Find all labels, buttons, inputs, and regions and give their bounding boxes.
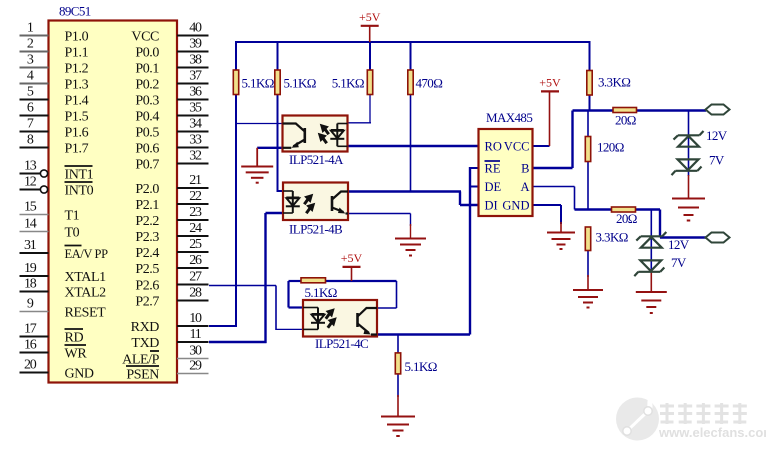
light arrows U3 [319,125,329,144]
svg-text:40: 40 [189,21,202,36]
svg-text:35: 35 [189,101,202,116]
svg-text:WR: WR [65,347,88,362]
svg-text:RXD: RXD [131,320,160,335]
wire opto B BR down [410,214,412,227]
pin 20 (GND) [20,358,94,382]
svg-text:P2.5: P2.5 [135,262,159,277]
pin 5 (P1.4) [20,85,89,109]
+5V supply top [359,10,381,26]
pin 34 (P0.5) [135,117,208,141]
svg-text:P2.0: P2.0 [135,182,159,197]
IC U2 MAX485 body [479,129,533,216]
svg-text:12V: 12V [706,128,728,143]
pin row RO/VCC [485,140,530,154]
wire down to TXD [264,213,266,343]
wire RXD pin10 [209,325,237,327]
svg-text:P2.1: P2.1 [135,198,159,213]
pin 28 (P2.7) [135,286,208,310]
pin 16 (WR) [20,338,88,362]
pin 29 (PSEN) [126,359,209,383]
svg-text:5.1KΩ: 5.1KΩ [284,76,316,91]
svg-text:RE: RE [485,162,501,176]
svg-text:ILP521-4B: ILP521-4B [289,222,343,237]
svg-text:31: 31 [24,238,37,253]
pin row RE/B [485,161,530,176]
wire opto B TR [348,190,461,192]
wire +5V stem top [369,26,371,42]
svg-text:22: 22 [189,189,202,204]
wire R1 to RXD [235,95,237,328]
resistor R8 20 [612,207,636,212]
svg-text:P0.1: P0.1 [135,62,159,77]
wire R10 right [326,280,397,282]
svg-text:3.3KΩ: 3.3KΩ [596,230,628,245]
pin row DI/GND [485,199,530,213]
svg-text:23: 23 [189,205,202,220]
wire A down [574,187,576,210]
svg-text:ILP521-4C: ILP521-4C [315,336,368,351]
svg-text:25: 25 [189,237,202,252]
wire zener chain 2 [650,210,652,273]
wire B up [571,111,573,169]
wire R3 down [369,95,371,123]
svg-text:P1.4: P1.4 [65,94,89,109]
svg-text:7V: 7V [709,153,725,168]
zener D1 12V [674,131,704,147]
svg-text:GND: GND [65,367,94,382]
wire to opto A pin TL [236,123,283,125]
svg-text:A: A [520,180,529,194]
pin 6 (P1.5) [20,101,89,125]
pin 19 (XTAL1) [20,261,107,285]
svg-text:30: 30 [189,344,202,359]
wire R4 down [410,95,412,193]
wire opto C BL [276,328,303,330]
svg-text:33: 33 [189,133,202,148]
wire jog down to DI [459,192,461,206]
pin 27 (P2.6) [135,270,208,294]
wire ground stem [560,222,562,233]
resistor R9 3.3K [585,227,590,251]
wire opto A TR [348,122,372,124]
pin 38 (P0.1) [135,53,208,77]
svg-text:20Ω: 20Ω [616,211,637,226]
wire DE stub [470,186,479,188]
wire RE/DE tie to opto C [469,167,471,335]
optocoupler U3 ILP521-4A body [283,116,348,152]
pin 9 (RESET) [20,297,107,321]
svg-text:7V: 7V [671,255,687,270]
wire ground stem [397,395,399,417]
resistor R6 20 [613,108,637,113]
wire R5 bottom [589,95,591,111]
pin 11 (TXD) [131,327,208,351]
light arrows U4 [304,195,314,214]
svg-text:P1.2: P1.2 [65,62,89,77]
wire bus to R3 [369,41,371,70]
wire opto B BR [348,213,411,215]
svg-text:28: 28 [189,286,202,301]
wire R10 left [289,280,302,282]
pin 26 (P2.5) [135,253,208,277]
svg-text:5.1KΩ: 5.1KΩ [305,285,337,300]
wire R2 down to opto B [277,95,279,192]
resistor R10 5.1K [301,278,326,283]
connector J2 [706,233,730,243]
resistor R1 5.1K [233,70,238,95]
svg-text:P2.4: P2.4 [135,246,159,261]
pin 4 (P1.3) [20,69,89,93]
ground zener 1 [672,199,705,221]
wire +5V stem to VCC [549,91,551,146]
zener D4 7V [634,260,664,276]
wire +5V top bus [236,41,590,43]
resistor R7 120 [585,137,590,162]
wire B net left [573,109,614,111]
svg-text:T0: T0 [65,226,80,241]
light arrows U5 [326,309,336,328]
pin 2 (P1.1) [20,37,89,61]
resistor R3 5.1K [367,70,372,95]
IC U1 89C51 body [49,21,178,383]
pin 37 (P0.2) [135,69,208,93]
ground opto A [241,167,273,183]
svg-text:T1: T1 [65,209,80,224]
ground opto B [395,239,426,256]
svg-text:11: 11 [189,327,201,342]
svg-text:P2.2: P2.2 [135,214,159,229]
ground R11 [381,417,415,437]
svg-text:P2.3: P2.3 [135,230,159,245]
svg-text:12: 12 [24,175,37,190]
svg-text:P2.7: P2.7 [135,295,159,310]
svg-text:16: 16 [24,338,37,353]
LED U5 [311,308,325,330]
phototransistor U3 [283,124,305,148]
wire opto C TR [377,307,397,309]
svg-text:RD: RD [65,331,84,346]
svg-text:XTAL2: XTAL2 [65,286,107,301]
svg-text:+5V: +5V [341,251,363,265]
phototransistor U4 [332,192,348,214]
svg-text:MAX485: MAX485 [486,110,532,125]
ground zener 2 [636,292,667,313]
resistor R4 470 [408,70,413,95]
pin 7 (P1.6) [20,117,89,141]
wire opto B TL stub [277,190,284,192]
wire TXD pin11 [209,341,267,343]
wire B pin [533,167,573,169]
svg-text:P0.4: P0.4 [135,110,159,125]
svg-text:12V: 12V [668,237,690,252]
svg-text:B: B [521,162,529,176]
pin 35 (P0.4) [135,101,208,125]
svg-text:36: 36 [189,85,202,100]
svg-text:PSEN: PSEN [126,368,159,383]
pin 32 (P0.7) [135,149,208,173]
svg-text:17: 17 [24,322,37,337]
svg-text:VCC: VCC [504,140,530,154]
svg-text:39: 39 [189,37,202,52]
svg-text:15: 15 [24,200,37,215]
resistor R5 3.3K [587,71,592,96]
svg-text:P1.1: P1.1 [65,46,89,61]
wire P2.6 pin27 [209,285,276,287]
zener D2 7V [672,159,702,175]
wire opto C TL [289,306,304,308]
svg-text:470Ω: 470Ω [416,76,443,91]
svg-text:34: 34 [189,117,202,132]
pin 1 (P1.0) [20,21,89,45]
svg-text:120Ω: 120Ω [597,140,624,155]
pin 39 (P0.0) [135,37,208,61]
svg-text:89C51: 89C51 [59,4,91,19]
wire loop down [287,281,289,308]
wire opto B BL [266,212,284,214]
svg-text:P2.6: P2.6 [135,279,159,294]
svg-text:27: 27 [189,270,202,285]
wire R9 down [587,251,589,278]
svg-text:19: 19 [24,261,37,276]
optocoupler U4 ILP521-4B body [283,183,348,221]
wire opto C BR [377,333,470,335]
svg-text:10: 10 [189,311,202,326]
wire ground stem [587,275,589,291]
svg-text:ILP521-4A: ILP521-4A [289,152,344,167]
svg-text:DI: DI [485,199,498,213]
wire zener chain 1 [688,111,690,177]
svg-text:3.3KΩ: 3.3KΩ [598,75,630,90]
pin 22 (P2.1) [135,189,208,213]
svg-text:P0.2: P0.2 [135,78,159,93]
svg-text:32: 32 [189,149,202,164]
svg-text:DE: DE [485,180,502,194]
optocoupler U5 ILP521-4C body [303,300,377,337]
wire jog down [659,210,661,238]
pin 8 (P1.7) [20,133,89,157]
LED link wires U4 [283,191,293,213]
svg-text:EA/V PP: EA/V PP [65,247,109,261]
wire VCC pin [533,145,550,147]
+5V supply opto C [341,251,363,267]
wire A net mid [636,208,661,210]
wire bus to R4 [410,41,412,70]
wire GND pin [533,204,562,206]
wire B net right [636,109,706,111]
wire GND down [560,205,562,224]
pin 14 (T0) [20,217,80,241]
svg-text:13: 13 [24,159,37,174]
wire down to opto C BL [275,286,277,331]
pin 12 (INT0) [20,175,94,199]
wire to connector 2 [660,236,706,238]
wire loop right down [396,281,398,308]
zener D3 12V [636,232,666,248]
svg-text:GND: GND [502,199,529,213]
ground R9 [573,290,603,308]
svg-text:P0.5: P0.5 [135,126,159,141]
wire bus to R2 [277,41,279,70]
svg-text:P1.5: P1.5 [65,110,89,125]
wire R11 down [397,374,399,397]
pin 15 (T1) [20,200,80,224]
wire A net left [575,208,612,210]
wire ground stem [410,224,412,239]
svg-text:20: 20 [24,358,37,373]
svg-text:TXD: TXD [131,336,159,351]
pin 33 (P0.6) [135,133,208,157]
pin 17 (RD) [20,322,84,346]
svg-text:5.1KΩ: 5.1KΩ [405,359,437,374]
svg-text:14: 14 [24,217,37,232]
svg-text:XTAL1: XTAL1 [65,270,107,285]
wire bus to R5 [589,41,591,71]
wire opto A BL to ground [257,147,282,149]
LED U3 [330,124,344,147]
LED link wires U3 [337,124,347,147]
svg-text:VCC: VCC [131,30,159,45]
wire RE stub [470,167,479,169]
wire 120ohm top [587,111,589,137]
svg-text:INT0: INT0 [65,184,94,199]
svg-text:www.elecfans.com: www.elecfans.com [658,425,766,440]
svg-text:P0.0: P0.0 [135,46,159,61]
svg-text:26: 26 [189,253,202,268]
svg-text:RO: RO [485,140,502,154]
pin 18 (XTAL2) [20,277,107,301]
ground MAX485 [547,233,575,250]
pin 30 (ALE/P) [122,344,208,368]
svg-text:+5V: +5V [359,10,381,24]
pin 10 (RXD) [131,311,209,335]
svg-text:5.1KΩ: 5.1KΩ [242,76,274,91]
svg-text:18: 18 [24,277,37,292]
resistor R2 5.1K [275,70,280,95]
watermark logo [616,398,659,441]
svg-text:29: 29 [189,359,202,374]
wire ground stem opto A [256,148,258,167]
pin 13 (INT1) [20,159,94,183]
wire ground stem [650,273,652,293]
pin 21 (P2.0) [135,173,208,197]
svg-text:P0.7: P0.7 [135,158,159,173]
svg-text:38: 38 [189,53,202,68]
svg-text:P1.6: P1.6 [65,126,89,141]
svg-text:37: 37 [189,69,202,84]
svg-text:21: 21 [189,173,202,188]
watermark text [660,403,747,424]
wire opto A BR to RO [348,145,479,147]
svg-text:5.1KΩ: 5.1KΩ [332,76,364,91]
svg-text:P1.7: P1.7 [65,142,89,157]
svg-text:+5V: +5V [539,75,561,89]
resistor R11 5.1K [395,353,400,374]
svg-text:P1.3: P1.3 [65,78,89,93]
LED link wires U5 [303,308,318,330]
wire 120ohm bottom [587,162,589,210]
svg-text:24: 24 [189,221,202,236]
wire ground stem [688,175,690,199]
+5V supply MAX485 [539,75,561,91]
pin 31 (EA/VPP) [20,238,109,261]
pin 25 (P2.4) [135,237,208,261]
svg-text:P1.0: P1.0 [65,30,89,45]
pin 24 (P2.3) [135,221,208,245]
pin row DE/A [485,180,530,194]
wire A pin [533,186,575,188]
pin 3 (P1.2) [20,53,89,77]
wire to DI pin [460,204,479,206]
pin 23 (P2.2) [135,205,208,229]
wire bus to R1 [235,41,237,70]
wire +5V stem opto C [351,267,353,281]
pin 40 (VCC) [131,21,208,45]
LED U4 [286,191,300,213]
pin 36 (P0.3) [135,85,208,109]
svg-text:20Ω: 20Ω [615,113,636,128]
svg-text:P0.6: P0.6 [135,142,159,157]
wire to R11 [397,335,399,354]
svg-text:INT1: INT1 [65,168,94,183]
connector J1 [706,105,730,115]
svg-text:RESET: RESET [65,306,107,321]
svg-text:P0.3: P0.3 [135,94,159,109]
phototransistor U5 [358,308,378,335]
